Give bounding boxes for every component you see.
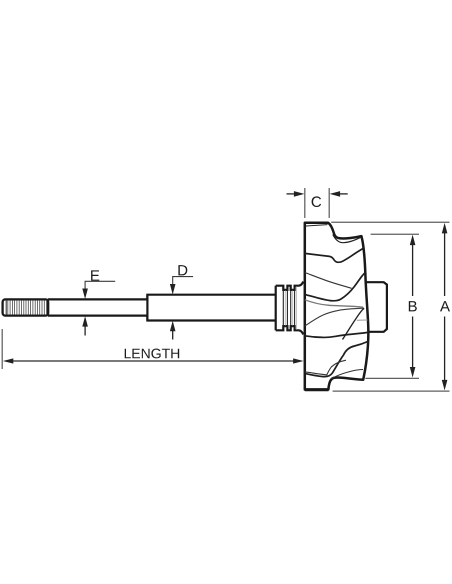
blade curve A bbox=[305, 248, 365, 262]
threaded shaft end bbox=[3, 299, 49, 315]
blade curve H (thin) bbox=[305, 360, 346, 375]
dimension A line and arrows bbox=[442, 223, 448, 391]
label A bbox=[440, 301, 450, 311]
blade hub short line bbox=[357, 319, 368, 321]
dimension B extension lines bbox=[365, 234, 419, 378]
bottom sliver line bbox=[332, 370, 364, 379]
label C bbox=[312, 196, 322, 207]
thin shaft (E section) bbox=[48, 299, 147, 315]
label E bbox=[91, 270, 99, 280]
LENGTH extension line bbox=[1, 329, 3, 369]
dimension E leader and arrows bbox=[82, 281, 115, 335]
label LENGTH bbox=[125, 349, 180, 359]
blade edge diagonal bbox=[343, 308, 365, 339]
blade tip sliver (top) bbox=[333, 235, 361, 243]
main shaft (D section) bbox=[147, 295, 275, 321]
blade curve B (thin) bbox=[305, 273, 352, 289]
blade curve G bbox=[305, 342, 368, 377]
blade curve F bbox=[305, 332, 368, 337]
blade hub line D (thin) bbox=[305, 300, 363, 307]
dimension C extension lines bbox=[305, 188, 329, 218]
label B bbox=[409, 301, 417, 311]
blade curve E (thin rising) bbox=[305, 308, 364, 326]
wheel top chamfer line bbox=[306, 225, 328, 226]
turbine wheel nose (hub boss) bbox=[366, 282, 387, 332]
dimension D leader and arrows bbox=[170, 277, 193, 340]
dimension B line and arrows bbox=[410, 235, 416, 378]
label D bbox=[178, 265, 187, 275]
blade curve C bbox=[305, 273, 365, 301]
LENGTH dimension line with arrows bbox=[3, 358, 304, 363]
seal collar with piston ring grooves bbox=[276, 282, 304, 335]
turbine wheel outline bbox=[305, 223, 369, 390]
dimension A extension lines bbox=[331, 222, 449, 391]
dimension C right arrow bbox=[330, 191, 348, 197]
dimension C left arrow bbox=[287, 191, 305, 197]
